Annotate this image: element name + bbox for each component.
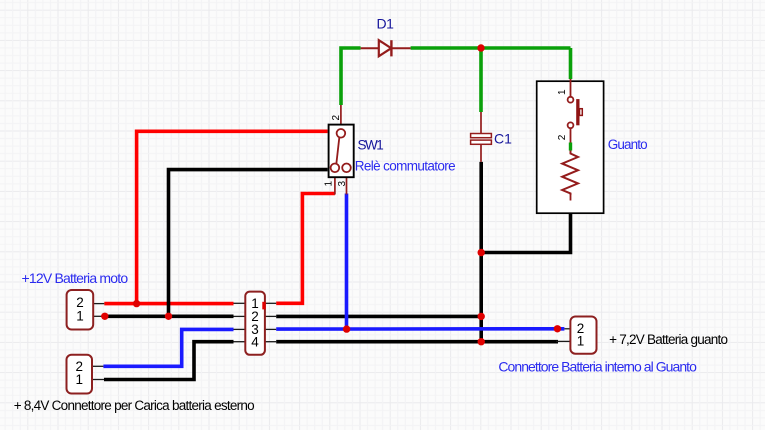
wire green: drop to guanto box: [569, 48, 573, 79]
svg-text:4: 4: [251, 334, 259, 349]
relay SW1: [329, 105, 354, 195]
svg-text:D1: D1: [377, 15, 395, 31]
red wire end marker at 4pin pin1: [262, 302, 265, 310]
junction dot black row4: [478, 338, 485, 345]
svg-text:+ 8,4V Connettore per Carica b: + 8,4V Connettore per Carica batteria es…: [14, 398, 254, 413]
svg-text:1: 1: [75, 372, 83, 387]
svg-text:Connettore Batteria interno al: Connettore Batteria interno al Guanto: [498, 359, 697, 375]
pushbutton in guanto: [568, 79, 583, 128]
connector glove battery (2-pin right): [556, 317, 597, 354]
wire black: guanto return: [481, 200, 570, 253]
wire black: 4pin pin2 right to C1 column: [276, 315, 481, 319]
junction dot guanto return: [478, 249, 485, 256]
svg-text:1: 1: [76, 309, 84, 324]
connector 4pin middle: [234, 292, 277, 355]
svg-text:SW1: SW1: [358, 137, 384, 152]
svg-text:1: 1: [557, 89, 568, 95]
svg-text:1: 1: [577, 334, 585, 349]
wire black: 4pin pin4 right to C1 column: [276, 340, 481, 344]
capacitor C1: [471, 112, 492, 162]
connector charge external (2-pin left bottom): [67, 355, 105, 394]
wire end dot battery moto pin1: [101, 313, 108, 320]
junction dot black row2: [478, 313, 485, 320]
wire green: drop to C1: [479, 48, 483, 112]
wire black: vertical riser to relay pin1 row: [169, 170, 328, 317]
svg-text:2: 2: [331, 115, 342, 121]
wire green: stub above resistor: [570, 128, 572, 150]
wire green: top rail right of diode: [411, 46, 571, 50]
junction dot black riser: [165, 313, 172, 320]
connector battery moto (2-pin left top): [67, 290, 105, 330]
wire red: battery moto pin2 to 4pin pin1: [104, 302, 233, 306]
wire red: 4pin pin1 to relay pin1: [276, 194, 335, 304]
svg-text:Relè commutatore: Relè commutatore: [355, 159, 455, 174]
svg-text:3: 3: [337, 181, 348, 187]
junction dot on green at C1 branch: [477, 44, 484, 51]
wire black: C1 column junction to right connector pin1: [481, 340, 558, 344]
svg-text:+ 7,2V Batteria guanto: + 7,2V Batteria guanto: [609, 332, 727, 347]
wire end dot blue at glove connector: [554, 325, 561, 332]
svg-text:1: 1: [324, 181, 335, 187]
svg-text:C1: C1: [494, 131, 512, 147]
wire green: top rail left of diode: [341, 48, 361, 105]
wire black: charge connector pin1 to 4pin pin4: [104, 342, 234, 380]
svg-text:+12V Batteria moto: +12V Batteria moto: [22, 270, 129, 286]
svg-text:2: 2: [557, 134, 568, 140]
guanto box: [537, 81, 604, 213]
svg-text:Guanto: Guanto: [608, 137, 647, 152]
wire blue: charge connector pin2 to 4pin pin3: [103, 329, 233, 366]
wire blue: 4pin pin3 right to glove battery connector pin2: [276, 327, 564, 331]
wire black: C1 bottom vertical: [479, 162, 483, 342]
junction dot red riser: [133, 300, 140, 307]
junction dot blue at 4pin pin3: [343, 325, 350, 332]
wire black: battery moto pin1 to 4pin pin2: [105, 314, 234, 318]
wire blue: relay pin3 down: [345, 194, 349, 330]
diode D1: [361, 40, 411, 56]
wire red: vertical riser to relay: [137, 131, 328, 303]
resistor in guanto: [562, 151, 578, 201]
